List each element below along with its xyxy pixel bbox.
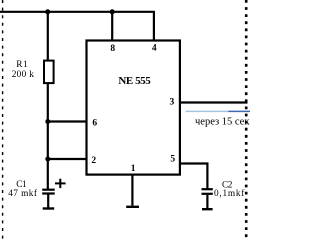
svg-text:1: 1 <box>131 164 136 174</box>
svg-text:R1: R1 <box>16 60 28 70</box>
wire: blue annotation line (light part) <box>186 110 229 112</box>
left dashed border line <box>2 0 4 240</box>
svg-text:3: 3 <box>170 98 175 108</box>
svg-text:0,1mkf: 0,1mkf <box>214 188 245 199</box>
svg-text:47 mkf: 47 mkf <box>8 188 38 199</box>
node: junction dot at pin 6 <box>45 119 50 124</box>
ground under pin 1 <box>126 206 139 208</box>
svg-text:NE 555: NE 555 <box>118 75 151 87</box>
svg-text:4: 4 <box>152 44 157 54</box>
node: junction dot at pin 2 <box>45 157 50 162</box>
IC U1: NE 555 timer body <box>87 41 180 175</box>
wire: pin 3 output to the right <box>180 101 248 103</box>
svg-text:200 k: 200 k <box>12 70 35 80</box>
resistor R1 <box>44 61 54 84</box>
wire: C2 bottom lead <box>206 195 208 208</box>
wire: pin 5 to C2 <box>180 164 208 189</box>
node: junction dot at R1 top <box>45 9 50 14</box>
wire: blue annotation line (dark part) <box>228 110 250 112</box>
wire: pin 6 stub <box>48 120 87 122</box>
node: junction dot at pin 8 drop <box>110 9 115 14</box>
svg-text:6: 6 <box>92 119 97 129</box>
svg-text:8: 8 <box>110 44 115 54</box>
wire: pin 2 stub <box>48 158 87 160</box>
polarity plus sign of C1 <box>55 182 66 184</box>
wire: rail down to R1 top <box>47 12 49 61</box>
capacitor C1 (polarized) <box>42 189 55 191</box>
svg-text:2: 2 <box>91 156 96 166</box>
ground under C1 <box>43 207 55 209</box>
capacitor C2 <box>202 188 213 190</box>
wire: rail down to pin 8 <box>111 12 113 41</box>
svg-text:через 15 сек: через 15 сек <box>195 117 250 128</box>
wire: pin 1 down <box>131 175 133 206</box>
right dashed border line <box>245 0 248 240</box>
wire: top supply rail with corner down to pin 4 <box>0 12 154 41</box>
wire: C1 bottom lead <box>47 195 49 208</box>
wire: R1 bottom down to C1 (through pin6/pin2 junctions) <box>47 83 49 190</box>
svg-text:5: 5 <box>170 155 175 165</box>
ground under C2 <box>202 208 213 210</box>
